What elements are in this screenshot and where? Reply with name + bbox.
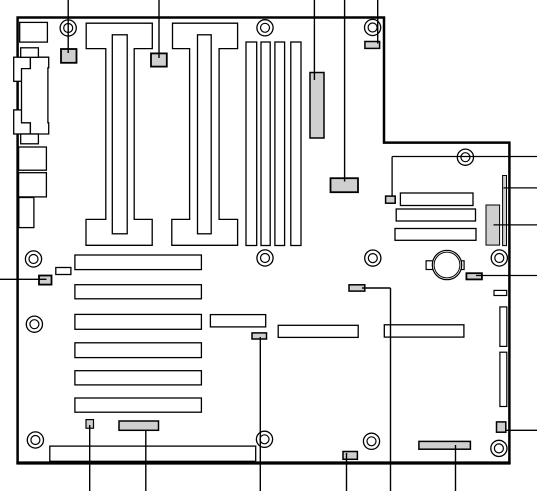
callout leader line to wake-on-LAN connector (left) [0,278,47,280]
LAN connector [19,147,47,170]
callout leader line from serial port header (bottom right) [455,445,457,491]
callout leader line from USB front header [145,430,147,491]
SCSI controller (gray tall box, right) [486,205,500,245]
keyboard/mouse stacked connector [20,22,48,42]
callout leader line to speaker connector [476,275,537,277]
memory riser slot 2 (white, upper right) [396,209,475,221]
callout leader line to narrow gray bar [504,187,537,189]
video connector [19,173,47,197]
memory riser slot 1 (white, upper right) [400,193,473,206]
USB front header (gray, bottom left) [119,421,159,430]
chassis intrusion connector (gray, lower right edge) [497,422,506,432]
auxiliary power connector (gray) [331,178,359,192]
VGA/parallel connector stack [22,57,49,134]
ISA/PCI slot 4 [75,343,201,358]
DIMM socket 2 [261,42,270,246]
small white box beside left ISA slot [56,268,71,275]
callout leader line from configuration jumper (vertical) [390,288,392,491]
serial port B bracket [14,110,31,134]
fan connector (gray) top right [365,42,380,49]
board bottom edge (thicker) [16,461,510,464]
jumper block (small gray, bottom left) [86,420,94,429]
wake-on-LAN connector (gray, left) [39,276,52,285]
audio connector [19,198,34,228]
callout leader line to chassis intrusion connector [506,429,537,431]
front panel connector (long white, bottom) [50,446,256,461]
USB connector [21,48,39,58]
DIMM socket 1 [246,42,257,246]
fan connector (gray, upper right) [386,196,396,203]
processor slot 2 edge connector [198,35,212,234]
small white box (right, below MH8) [494,290,507,295]
processor slot 2 retention bracket [172,23,238,245]
memory riser slot 3 (white, upper right) [395,229,476,241]
fan connector (gray) near MH1 [61,49,77,63]
serial port A bracket [14,57,31,81]
mounting hole MH7 [365,250,381,266]
floppy connector (white, center) [278,325,358,337]
battery left tab [426,261,434,270]
ISA/PCI slot 3 [75,314,201,329]
DIMM socket 4 [291,42,301,246]
callout leader line from jumper block (bottom left) [89,425,91,491]
parallel port lower step [21,134,39,144]
right edge vertical slot 1 [500,307,507,347]
configuration jumper block (gray) [349,285,365,291]
IDE connector 2 (white, right) [384,325,464,337]
callout leader line to fan connector between processor slots [158,0,160,58]
narrow gray bar (right edge connector) [503,176,507,246]
ISA/PCI slot 6 [75,398,201,412]
fan connector (gray) between processor slots [151,53,167,66]
front panel header (gray, below slot 3) [252,333,267,339]
mounting hole MH10 [27,432,43,448]
battery right tab [461,261,465,270]
callout leader line to auxiliary power connector [344,0,346,182]
IDE connector (white, center) [210,315,265,327]
ISA/PCI slot 1 [75,255,201,270]
callout leader line to power connector [313,0,315,80]
mounting hole MH4 [457,149,473,165]
mounting hole MH6 [257,250,273,266]
speaker connector (gray, right of battery) [466,273,482,279]
mounting hole MH5 [25,251,41,267]
processor slot 1 retention bracket [86,23,152,245]
battery [432,250,461,279]
mounting hole MH13 [491,440,507,456]
mounting hole MH1 [60,20,76,36]
callout leader line from configuration jumper (horizontal) [362,287,391,289]
callout leader line to fan connector top right [377,0,379,44]
right edge vertical slot 2 [500,352,507,406]
mounting hole MH2 [257,20,273,36]
mounting hole MH11 [256,431,272,447]
ISA/PCI slot 5 [75,371,201,385]
mounting hole MH8 [491,250,507,266]
processor slot 1 edge connector [112,35,127,234]
power connector (gray vertical bar) [310,73,324,139]
callout leader line from front panel header [259,337,261,491]
mounting hole MH3 [365,19,381,35]
mounting hole MH9 [26,316,42,332]
serial port header (gray, bottom right) [419,441,471,449]
DIMM socket 3 [275,42,285,246]
callout leader line to fan connector upper right (vertical) [391,157,393,197]
ISA/PCI slot 2 [75,285,201,299]
callout leader line from IR header [346,453,348,491]
mounting hole MH12 [363,433,379,449]
callout leader line to SCSI controller [494,224,537,226]
IR header (small gray, bottom center-right) [343,452,357,460]
callout leader line to fan connector upper right (horizontal) [392,156,537,158]
callout leader line to fan connector near MH1 [67,0,69,53]
